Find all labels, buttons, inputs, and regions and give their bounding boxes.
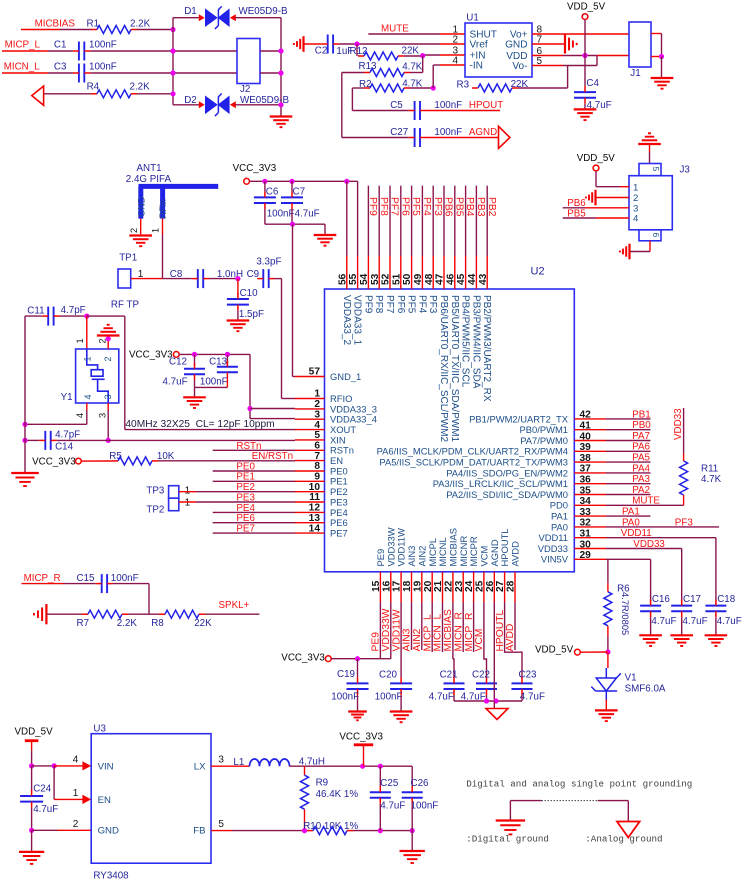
capacitor C3 [79, 64, 84, 83]
capacitor C19 [347, 683, 369, 689]
svg-text:4.7uF: 4.7uF [295, 208, 320, 219]
svg-text:C20: C20 [379, 670, 398, 681]
svg-text:PE6: PE6 [330, 517, 348, 528]
svg-text:22K: 22K [194, 618, 212, 629]
resistor R11 [680, 461, 688, 495]
wire PB0 [606, 429, 651, 431]
svg-text:31: 31 [580, 529, 592, 540]
svg-text:PA2: PA2 [632, 485, 650, 496]
svg-text:46.4K 1%: 46.4K 1% [316, 789, 359, 800]
wire pin3 [423, 54, 440, 56]
wire [563, 65, 597, 67]
svg-text:34: 34 [580, 496, 592, 507]
svg-text:4: 4 [83, 394, 93, 399]
wire [81, 460, 112, 462]
wire C6 down [264, 209, 266, 224]
capacitor C6 [254, 197, 276, 203]
connector J1 [629, 22, 651, 67]
analog ground triangle [486, 709, 508, 720]
wire [304, 43, 322, 45]
wire VIN [54, 765, 83, 767]
svg-text:PF9: PF9 [362, 295, 373, 314]
ground R7 [34, 604, 46, 624]
capacitor C16 [640, 606, 661, 612]
svg-text:C27: C27 [390, 127, 408, 138]
svg-text:2.2K: 2.2K [130, 82, 151, 93]
capacitor C17 [671, 606, 692, 612]
svg-text:C24: C24 [33, 784, 52, 795]
ground C2 return [294, 36, 304, 52]
svg-text:C14: C14 [55, 442, 74, 453]
power VDD_5V [582, 14, 588, 20]
wire [44, 93, 91, 95]
wire pin 55 stub [357, 256, 359, 289]
wire pin 18 stub [411, 572, 413, 602]
wire PF3 [432, 186, 434, 256]
svg-text:PE1: PE1 [330, 476, 348, 487]
svg-text:2: 2 [73, 819, 79, 830]
power VCC_3V3 [244, 178, 250, 184]
wire PE6 [213, 522, 295, 524]
svg-text:MUTE: MUTE [632, 496, 660, 507]
node [247, 406, 252, 411]
svg-text:PF5: PF5 [410, 197, 421, 216]
power VCC_3V3 [173, 352, 179, 358]
wire AGND down [493, 602, 495, 701]
wire [137, 93, 173, 95]
svg-text:C25: C25 [380, 778, 399, 789]
wire VDDA33_1 [357, 181, 359, 256]
ground crystal pin2 [97, 325, 120, 336]
svg-text:5: 5 [314, 430, 320, 441]
wire PA6 [606, 450, 651, 452]
wire pin 53 stub [378, 256, 380, 289]
svg-text:4: 4 [452, 56, 458, 67]
wire C25 down [379, 804, 381, 831]
svg-text:PF6: PF6 [395, 295, 406, 314]
svg-text:28: 28 [506, 580, 517, 592]
wire PE4 [213, 511, 295, 513]
svg-text:1: 1 [151, 228, 161, 233]
power VDD_5V bar [25, 739, 39, 742]
wire PB6 [443, 186, 445, 256]
wire LX [211, 765, 250, 767]
connector J3 bottom lug [639, 230, 661, 241]
capacitor C12 [184, 369, 205, 375]
svg-text:C6: C6 [266, 186, 279, 197]
test point TP3 [169, 486, 179, 499]
node [484, 698, 489, 703]
svg-text:PB5/UART0_TX/IIC_SDA/PWM1: PB5/UART0_TX/IIC_SDA/PWM1 [449, 295, 460, 443]
svg-text:4.7uF: 4.7uF [651, 616, 676, 627]
svg-text:4.7pF: 4.7pF [55, 430, 80, 441]
svg-text:2: 2 [452, 35, 458, 46]
svg-text:53: 53 [370, 273, 381, 285]
svg-text:PB0: PB0 [632, 420, 651, 431]
wire GND_1 drop [292, 224, 294, 376]
wire pin 14 stub [295, 532, 325, 534]
resistor R1 [91, 26, 137, 34]
wire [173, 17, 199, 19]
wire pin 22 stub [452, 572, 454, 602]
wire R9 down [304, 809, 306, 830]
svg-text:4: 4 [75, 413, 85, 418]
svg-text:D1: D1 [184, 6, 197, 17]
svg-text:C12: C12 [169, 356, 187, 367]
svg-text:C19: C19 [337, 669, 355, 680]
wire [352, 110, 408, 112]
node [278, 70, 283, 75]
svg-text:30: 30 [580, 539, 592, 550]
svg-text:PA4: PA4 [632, 463, 650, 474]
svg-text:PF4: PF4 [421, 197, 432, 216]
svg-text:AIN2: AIN2 [416, 546, 427, 567]
wire pin 27 stub [504, 572, 506, 602]
wire [21, 29, 60, 31]
ground under C18 [705, 635, 728, 646]
svg-text:43: 43 [478, 273, 489, 285]
analog ground symbol [617, 822, 640, 838]
svg-text:100nF: 100nF [111, 573, 139, 584]
ground [270, 117, 293, 128]
wire [563, 207, 585, 209]
ground under C26 [400, 851, 425, 863]
svg-text:TP1: TP1 [119, 252, 137, 263]
wire PF8 [378, 186, 380, 256]
svg-text:VIN5V: VIN5V [541, 554, 569, 565]
svg-text:VCC_3V3: VCC_3V3 [281, 653, 325, 664]
wire AVDD [514, 602, 516, 650]
wire to C6 [264, 181, 266, 191]
svg-text:C3: C3 [54, 62, 67, 73]
wire [275, 278, 282, 280]
node [360, 764, 365, 769]
svg-text:33: 33 [580, 507, 592, 518]
wire VDDA33_2 [346, 181, 348, 256]
wire to C16 [650, 559, 652, 601]
wire [60, 315, 87, 317]
svg-text:TP3: TP3 [146, 486, 165, 497]
node [290, 222, 295, 227]
wire [597, 55, 629, 57]
regulator U3 [91, 734, 211, 864]
wire pin 44 stub [475, 256, 477, 289]
wire VDD pin6 [532, 55, 563, 57]
wire to C25 [379, 766, 381, 786]
wire [620, 186, 629, 188]
svg-text:41: 41 [580, 421, 592, 432]
wire pin 57 stub [295, 376, 325, 378]
wire pin 5 stub [295, 439, 325, 441]
wire pin 36 stub [574, 483, 606, 485]
svg-text:SPKL+: SPKL+ [219, 600, 250, 611]
wire VDD_5V [580, 651, 608, 653]
wire VCC_3V3 [331, 658, 391, 660]
wire [209, 278, 238, 280]
ground C12 C13 [183, 397, 206, 408]
wire PE3 [196, 501, 295, 503]
power VCC_3V3 [325, 656, 331, 662]
wire pin 37 stub [574, 472, 606, 474]
wire RFIO [282, 398, 296, 400]
svg-text:HPOUT: HPOUT [469, 100, 503, 111]
wire [410, 72, 423, 74]
svg-text:PA7/PWM0: PA7/PWM0 [520, 435, 568, 446]
wire J1 out top [651, 33, 662, 35]
capacitor C27 [415, 128, 420, 147]
svg-text:R7: R7 [77, 618, 90, 629]
wire pin 11 stub [295, 501, 325, 503]
svg-text:9: 9 [314, 472, 320, 483]
wire PA3 [606, 483, 651, 485]
wire C4 to gnd [584, 104, 586, 110]
wire pin 30 stub [574, 548, 606, 550]
wire pin 32 stub [574, 526, 606, 528]
wire to gnd [31, 830, 33, 852]
wire C16 to gnd [650, 617, 652, 635]
wire pin 38 stub [574, 461, 606, 463]
svg-text:C18: C18 [717, 594, 736, 605]
wire PB4 [465, 186, 467, 256]
svg-text:C10: C10 [240, 288, 259, 299]
wire [404, 55, 423, 57]
port triangle [32, 86, 44, 105]
wire crystal pin3 stub [107, 403, 109, 410]
svg-text:PF3: PF3 [432, 197, 443, 216]
wire pin 47 stub [443, 256, 445, 289]
wire pin 49 stub [421, 256, 423, 289]
svg-text:36: 36 [580, 475, 592, 486]
connector J3 [629, 176, 672, 230]
wire [353, 830, 412, 832]
ground under C17 [670, 635, 693, 646]
wire [598, 800, 629, 802]
ground C6 C7 [314, 235, 337, 246]
svg-text:RY3408: RY3408 [93, 871, 129, 882]
wire VDD11 [606, 537, 716, 539]
wire PA0 PF3 [606, 526, 719, 528]
wire analog gnd [627, 801, 629, 822]
svg-text:35: 35 [580, 485, 592, 496]
svg-text:PA3: PA3 [632, 474, 650, 485]
wire pin4 [433, 64, 440, 66]
wire [137, 29, 173, 31]
svg-text:PF3: PF3 [675, 517, 694, 528]
wire mic net [473, 602, 475, 652]
wire C7 down [291, 209, 293, 224]
wire MUTE [606, 504, 684, 506]
wire PB3 [475, 186, 477, 256]
power VDD_5V [593, 165, 599, 171]
ground J3 pin2 [586, 190, 596, 206]
svg-text:4.7uF: 4.7uF [33, 804, 58, 815]
wire pin 19 stub [421, 572, 423, 602]
wire VCC stem [363, 746, 365, 766]
resistor R4 [91, 90, 137, 98]
wire J1 right [661, 34, 663, 57]
svg-text:1: 1 [185, 498, 191, 509]
wire PA4 [606, 472, 651, 474]
wire pin 26 stub [493, 572, 495, 602]
wire [46, 613, 82, 615]
svg-text:MUTE: MUTE [381, 24, 409, 35]
wire to C21 [453, 659, 454, 677]
wire TP1 pin [131, 278, 163, 280]
wire [235, 17, 281, 19]
wire [205, 613, 259, 615]
svg-text:46: 46 [445, 273, 456, 285]
wire -IN drop [432, 65, 434, 88]
wire pin 43 stub [486, 256, 488, 289]
svg-text:3: 3 [218, 755, 224, 766]
wire pin3 [585, 207, 629, 209]
ground below J3 [620, 244, 630, 260]
svg-text:C22: C22 [472, 670, 490, 681]
svg-text:19: 19 [412, 580, 423, 592]
ground above J3 [638, 133, 661, 144]
wire MICBIAS down [452, 602, 454, 659]
wire [173, 104, 199, 106]
capacitor C14 [45, 431, 50, 450]
wire pin 24 stub [473, 572, 475, 602]
wire pin 39 stub [574, 450, 606, 452]
wire C24 down [31, 808, 33, 831]
svg-text:50: 50 [402, 273, 413, 285]
wire LX to C26 [290, 765, 413, 767]
svg-text:2: 2 [103, 356, 113, 361]
svg-text:VDD11: VDD11 [538, 532, 568, 543]
svg-text:PF7: PF7 [389, 197, 400, 216]
node [170, 27, 175, 32]
wire pin 50 stub [411, 256, 413, 289]
svg-text:PB2/PWM3/UART2_RX: PB2/PWM3/UART2_RX [481, 295, 492, 402]
svg-text:22K: 22K [402, 46, 420, 57]
wire VCC_3V3 bus [250, 180, 358, 182]
wire [596, 56, 598, 66]
svg-text:57: 57 [309, 367, 321, 378]
svg-text:XIN: XIN [330, 434, 346, 445]
wire [90, 72, 237, 74]
node [410, 828, 415, 833]
svg-text:VDD11: VDD11 [621, 528, 652, 539]
wire PE7 [213, 532, 295, 534]
svg-text:PE3: PE3 [330, 496, 348, 507]
wire C27 loop [341, 73, 343, 138]
capacitor C5 [415, 101, 420, 120]
svg-text:C2: C2 [315, 46, 328, 57]
resistor R13 [364, 69, 410, 77]
wire pin 3 stub [295, 418, 325, 420]
wire [32, 829, 58, 831]
svg-text:PB1: PB1 [632, 409, 651, 420]
svg-text:MICP_R: MICP_R [24, 573, 61, 584]
wire [440, 64, 465, 66]
wire [510, 800, 541, 802]
capacitor C4 [574, 92, 596, 98]
wire pin 51 stub [400, 256, 402, 289]
ground under C16 [639, 635, 662, 646]
capacitor C2 [328, 35, 333, 54]
svg-text:2.2K: 2.2K [130, 18, 151, 29]
svg-text:PF4: PF4 [416, 295, 427, 314]
wire PA5 [606, 461, 651, 463]
wire to gnd [324, 224, 326, 235]
svg-text:4.7uF: 4.7uF [380, 800, 405, 811]
svg-text:MICN_L: MICN_L [4, 62, 40, 73]
resistor R6 [604, 592, 612, 626]
antenna ANT1 [139, 186, 219, 218]
ground under C20 [390, 712, 413, 723]
svg-text:40: 40 [580, 431, 592, 442]
resistor R9 [301, 775, 309, 809]
svg-text:GND: GND [98, 826, 119, 837]
TVS diode D1 [199, 6, 236, 29]
wire C15 down [148, 584, 150, 615]
wire pin 46 stub [454, 256, 456, 289]
svg-text:42: 42 [580, 410, 592, 421]
wire to C18 [715, 538, 717, 601]
svg-text:27: 27 [495, 580, 506, 592]
node [29, 763, 34, 768]
wire AIN [411, 602, 413, 650]
svg-text:VDD11W: VDD11W [396, 528, 407, 567]
svg-text:C4: C4 [586, 78, 599, 89]
wire pin 4 stub [295, 429, 325, 431]
svg-text:R9: R9 [316, 778, 329, 789]
svg-text:C26: C26 [411, 778, 430, 789]
wire pin 42 stub [574, 418, 606, 420]
wire [649, 144, 651, 152]
wire VCC down [249, 354, 251, 418]
svg-text:4: 4 [73, 755, 79, 766]
svg-text:100nF: 100nF [89, 62, 117, 73]
wire pin 20 stub [431, 572, 433, 602]
svg-text:ANT1: ANT1 [137, 163, 162, 174]
wire to C7 [291, 181, 293, 191]
wire [60, 29, 91, 31]
node [344, 179, 349, 184]
svg-text:-IN: -IN [470, 61, 483, 72]
wire C13 down [226, 378, 228, 387]
svg-text:RF TP: RF TP [111, 299, 140, 310]
svg-text:PB2: PB2 [486, 197, 497, 217]
node [605, 649, 610, 654]
svg-text:29: 29 [580, 550, 592, 561]
test point TP2 [169, 498, 179, 511]
wire to C10 [237, 279, 239, 295]
svg-text:PA5: PA5 [632, 453, 650, 464]
wire to V1 [607, 652, 609, 668]
svg-text:PB3/PWM4/IIC_SDA: PB3/PWM4/IIC_SDA [470, 295, 481, 389]
wire [25, 439, 39, 441]
node [582, 53, 587, 58]
wire PB2 [486, 186, 488, 256]
wire [48, 72, 73, 74]
wire pin 34 stub [574, 504, 606, 506]
svg-text:PB5: PB5 [453, 197, 464, 217]
pin arrow EN [82, 795, 91, 804]
wire gnd join [265, 223, 325, 225]
svg-text:C17: C17 [683, 594, 701, 605]
svg-text:L1: L1 [233, 757, 244, 768]
svg-text:1: 1 [185, 485, 191, 496]
svg-text:PF9: PF9 [367, 197, 378, 216]
svg-text:55: 55 [348, 273, 359, 285]
wire PA1 [606, 515, 651, 517]
ground under V1 [595, 710, 618, 721]
wire C5 loop [351, 88, 353, 111]
svg-text:PA1: PA1 [622, 507, 640, 518]
